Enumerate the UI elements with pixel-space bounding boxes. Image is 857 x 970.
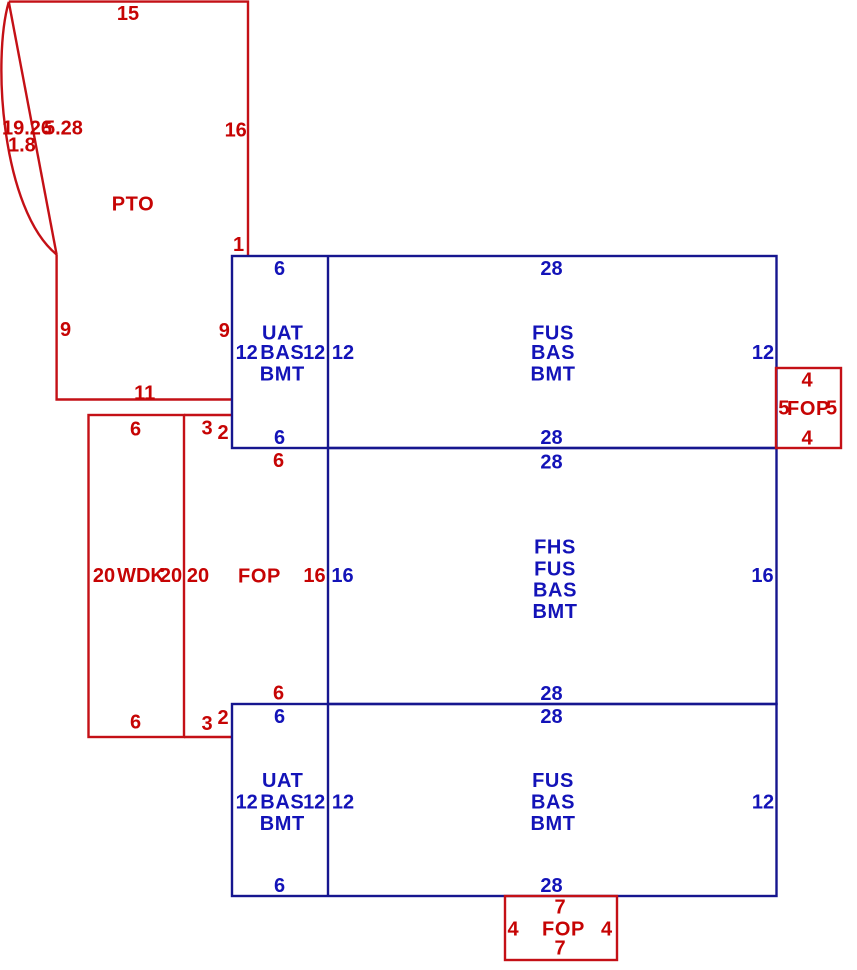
svg-text:6: 6 xyxy=(274,875,285,897)
svg-text:16: 16 xyxy=(331,565,353,587)
svg-text:BMT: BMT xyxy=(530,364,575,386)
svg-text:4: 4 xyxy=(801,428,813,450)
PTO outline top and right edges xyxy=(9,2,248,256)
svg-text:9: 9 xyxy=(219,320,230,342)
top blue rectangle UAT/FUS xyxy=(232,256,777,448)
svg-text:6: 6 xyxy=(274,258,285,280)
svg-text:6: 6 xyxy=(274,706,285,728)
PTO outline bottom and left edges xyxy=(57,255,232,400)
svg-text:20: 20 xyxy=(187,565,209,587)
top rectangle divider xyxy=(327,256,329,448)
svg-text:BAS: BAS xyxy=(533,580,577,602)
bottom blue rectangle UAT/FUS xyxy=(232,704,777,896)
svg-text:BMT: BMT xyxy=(260,364,305,386)
svg-text:6: 6 xyxy=(274,427,285,449)
svg-text:16: 16 xyxy=(225,120,247,142)
svg-text:12: 12 xyxy=(332,791,354,813)
svg-text:6: 6 xyxy=(130,418,141,440)
svg-text:16: 16 xyxy=(751,565,773,587)
svg-text:6: 6 xyxy=(130,712,141,734)
FOP top connector line xyxy=(184,414,232,416)
bottom rectangle divider xyxy=(327,704,329,896)
svg-text:28: 28 xyxy=(540,452,562,474)
svg-text:3: 3 xyxy=(201,713,212,735)
svg-text:12: 12 xyxy=(236,791,258,813)
svg-text:12: 12 xyxy=(752,791,774,813)
svg-text:28: 28 xyxy=(540,706,562,728)
svg-text:BMT: BMT xyxy=(530,813,575,835)
svg-text:BAS: BAS xyxy=(531,342,575,364)
svg-text:4: 4 xyxy=(601,919,613,941)
svg-text:28: 28 xyxy=(540,683,562,705)
svg-text:6: 6 xyxy=(273,683,284,705)
svg-text:BAS: BAS xyxy=(531,791,575,813)
svg-text:BAS: BAS xyxy=(260,342,304,364)
svg-text:FHS: FHS xyxy=(534,537,576,559)
FOP bottom red box xyxy=(505,896,617,960)
svg-text:PTO: PTO xyxy=(112,193,155,215)
svg-text:28: 28 xyxy=(540,875,562,897)
svg-text:BMT: BMT xyxy=(260,813,305,835)
svg-text:FOP: FOP xyxy=(238,566,281,588)
svg-text:2: 2 xyxy=(217,422,228,444)
svg-text:7: 7 xyxy=(554,938,565,960)
svg-text:2: 2 xyxy=(217,707,228,729)
svg-text:15: 15 xyxy=(117,3,139,25)
svg-text:FUS: FUS xyxy=(534,558,576,580)
FOP bottom connector line xyxy=(184,736,232,738)
svg-text:FOP: FOP xyxy=(787,398,830,420)
svg-text:12: 12 xyxy=(303,342,325,364)
svg-text:UAT: UAT xyxy=(262,770,303,792)
svg-text:5: 5 xyxy=(826,398,837,420)
svg-text:7: 7 xyxy=(554,897,565,919)
PTO chord line xyxy=(9,2,57,255)
svg-text:20: 20 xyxy=(93,565,115,587)
svg-text:WDK: WDK xyxy=(117,565,165,587)
svg-text:4: 4 xyxy=(507,919,519,941)
svg-text:3: 3 xyxy=(201,418,212,440)
svg-text:BAS: BAS xyxy=(260,791,304,813)
svg-text:12: 12 xyxy=(752,342,774,364)
svg-text:28: 28 xyxy=(540,427,562,449)
svg-text:1.8: 1.8 xyxy=(8,135,36,157)
svg-text:9: 9 xyxy=(60,319,71,341)
svg-text:5.28: 5.28 xyxy=(44,118,83,140)
svg-text:12: 12 xyxy=(303,791,325,813)
FOP right red box xyxy=(776,368,841,448)
svg-text:16: 16 xyxy=(303,565,325,587)
middle blue rectangle FHS xyxy=(328,448,777,704)
svg-text:BMT: BMT xyxy=(532,601,577,623)
PTO curved edge xyxy=(1,2,56,255)
WDK rectangle xyxy=(89,415,185,737)
svg-text:11: 11 xyxy=(134,382,155,404)
svg-text:1: 1 xyxy=(233,234,244,256)
svg-text:4: 4 xyxy=(801,370,813,392)
svg-text:12: 12 xyxy=(236,342,258,364)
svg-text:20: 20 xyxy=(160,565,182,587)
svg-text:FUS: FUS xyxy=(532,770,574,792)
svg-text:12: 12 xyxy=(332,342,354,364)
svg-text:6: 6 xyxy=(273,450,284,472)
svg-text:28: 28 xyxy=(540,258,562,280)
